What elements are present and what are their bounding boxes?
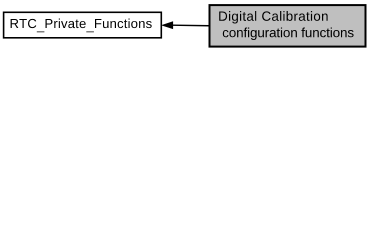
edge line (173, 24, 210, 27)
node Digital Calibration box (210, 5, 366, 47)
node RTC_Private_Functions box (4, 12, 162, 38)
node RTC_Private_Functions label (11, 19, 152, 33)
label line 2 (223, 28, 354, 41)
edge arrowhead (162, 22, 172, 29)
doxygen group dependency graph (0, 0, 371, 52)
background (0, 0, 371, 52)
label line 1 (219, 11, 327, 24)
